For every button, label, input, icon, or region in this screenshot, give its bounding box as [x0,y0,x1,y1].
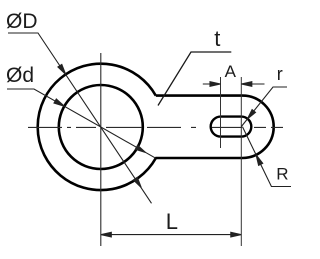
horizontal center line [28,126,283,128]
dimension leader Ød [7,89,156,158]
oblong slot [211,117,252,137]
inner hole circle Ød [59,85,143,169]
svg-text:t: t [214,26,220,51]
svg-text:L: L [166,209,178,234]
dimension A [203,82,265,87]
dimension L [101,232,242,237]
svg-text:A: A [225,62,237,81]
svg-text:ØD: ØD [6,10,38,33]
dimension leader ØD [8,33,152,203]
extension lines A [220,77,222,148]
svg-text:Ød: Ød [6,64,34,87]
leader t [158,52,231,106]
part outline (circle with arm and rounded end) [38,64,274,190]
leader r [241,87,287,127]
svg-text:R: R [276,165,288,184]
svg-text:r: r [277,64,283,84]
leader R [243,127,292,187]
vertical center line [100,53,102,246]
